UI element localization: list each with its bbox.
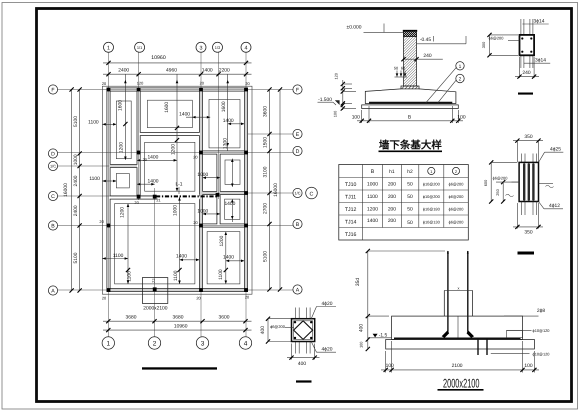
svg-text:B: B bbox=[371, 169, 375, 175]
svg-text:240: 240 bbox=[423, 53, 431, 59]
svg-text:1000: 1000 bbox=[197, 208, 208, 214]
svg-text:1100: 1100 bbox=[113, 253, 124, 259]
axis line E (horizontal) bbox=[248, 133, 293, 135]
svg-text:D: D bbox=[296, 149, 300, 155]
svg-text:16000: 16000 bbox=[63, 183, 69, 197]
svg-text:1/1: 1/1 bbox=[137, 45, 142, 50]
svg-text:ϕ6@200: ϕ6@200 bbox=[449, 206, 465, 211]
240 column section body bbox=[520, 35, 535, 55]
beam L-1 dashed line bbox=[156, 195, 217, 197]
svg-text:ϕ10@180: ϕ10@180 bbox=[423, 206, 441, 211]
svg-text:2100: 2100 bbox=[452, 363, 463, 369]
svg-text:1400: 1400 bbox=[224, 201, 235, 207]
svg-text:50: 50 bbox=[407, 207, 413, 213]
axis line 3 (vertical) bbox=[200, 53, 202, 338]
svg-text:3ϕ14: 3ϕ14 bbox=[534, 18, 545, 24]
svg-text:1/C: 1/C bbox=[50, 164, 56, 169]
column 3-A bbox=[199, 288, 203, 292]
svg-text:2000x2100: 2000x2100 bbox=[143, 306, 167, 312]
svg-text:200: 200 bbox=[388, 218, 396, 224]
room11 interior dim line bbox=[225, 232, 227, 284]
svg-text:10960: 10960 bbox=[151, 55, 166, 61]
svg-text:1500: 1500 bbox=[263, 137, 269, 148]
table header circle 1 bbox=[428, 167, 435, 174]
240 column wall lines above bbox=[520, 19, 522, 35]
svg-text:5100: 5100 bbox=[73, 252, 79, 263]
room10 interior dim line right bbox=[179, 197, 181, 284]
left dim 400 of column section bbox=[267, 319, 269, 342]
column 1/3-1/C bbox=[216, 193, 220, 197]
svg-text:2400: 2400 bbox=[73, 175, 79, 186]
bottom segment dim line bbox=[103, 320, 252, 322]
rebar dots 240 column bbox=[521, 37, 523, 39]
axis bubble C right bbox=[306, 187, 318, 199]
room 6 footing inner edge bbox=[225, 160, 240, 184]
room 10 footing inner edge bbox=[115, 204, 195, 284]
axis line C (horizontal) bbox=[58, 195, 161, 197]
svg-text:ϕ10@200: ϕ10@200 bbox=[423, 194, 441, 199]
right total dim line 16000 bbox=[279, 90, 281, 290]
svg-text:200: 200 bbox=[388, 194, 396, 200]
svg-text:1100: 1100 bbox=[367, 194, 378, 200]
svg-text:2000x2100: 2000x2100 bbox=[443, 376, 480, 390]
column 1-B bbox=[107, 224, 111, 228]
svg-text:TJ11: TJ11 bbox=[345, 195, 356, 201]
svg-text:x: x bbox=[458, 286, 460, 291]
top total dim line 10960 bbox=[103, 62, 252, 64]
svg-text:100: 100 bbox=[352, 114, 360, 120]
room 4 wall faces bbox=[140, 136, 199, 196]
axis line 1/D (horizontal) bbox=[58, 165, 138, 167]
svg-text:-1.5: -1.5 bbox=[379, 332, 388, 338]
column 3-D bbox=[199, 151, 203, 155]
axis bubble 2 bottom bbox=[148, 337, 160, 349]
svg-text:400: 400 bbox=[359, 324, 365, 332]
svg-text:3100: 3100 bbox=[263, 166, 269, 177]
svg-text:3600: 3600 bbox=[219, 314, 230, 320]
column 2-A pier center bbox=[153, 287, 157, 291]
400 column rebar diamond bbox=[294, 321, 313, 340]
svg-text:C: C bbox=[310, 191, 314, 197]
svg-text:3600: 3600 bbox=[263, 106, 269, 117]
dowel hooks bbox=[442, 331, 449, 338]
column 4-B bbox=[244, 224, 248, 228]
axis line 1/C (horizontal) bbox=[202, 192, 293, 194]
svg-text:5100: 5100 bbox=[73, 116, 79, 127]
column 4-A bbox=[244, 288, 248, 292]
svg-text:2200: 2200 bbox=[219, 68, 230, 74]
column 1/1-F bbox=[137, 88, 141, 92]
room10 interior dim line left bbox=[127, 204, 129, 284]
svg-text:21: 21 bbox=[156, 198, 160, 203]
svg-text:1100: 1100 bbox=[89, 176, 100, 182]
svg-text:B: B bbox=[296, 222, 300, 228]
room 3 wall faces bbox=[203, 91, 245, 151]
svg-text:400: 400 bbox=[260, 326, 266, 334]
svg-text:2400: 2400 bbox=[118, 68, 129, 74]
table horizontal lines bbox=[339, 177, 469, 179]
axis bubble E right bbox=[293, 129, 302, 138]
svg-text:2700: 2700 bbox=[263, 203, 269, 214]
svg-text:A: A bbox=[51, 289, 55, 295]
rooms 2/4 interior dim line bbox=[176, 74, 178, 191]
column 1-F bbox=[107, 88, 111, 92]
dim 400 of column section bbox=[291, 344, 293, 360]
svg-text:1100: 1100 bbox=[126, 271, 132, 282]
axis line B (horizontal) bbox=[58, 225, 294, 227]
svg-text:ϕ10@200: ϕ10@200 bbox=[423, 181, 441, 186]
svg-text:4ϕ20: 4ϕ20 bbox=[322, 347, 333, 353]
240 column wall lines below bbox=[520, 55, 522, 68]
axis bubble D right bbox=[293, 146, 302, 155]
column 1/1-C bbox=[137, 195, 141, 199]
svg-text:4ϕ12: 4ϕ12 bbox=[549, 203, 560, 209]
axis bubble B right bbox=[293, 219, 302, 228]
room 11 wall faces bbox=[203, 227, 245, 288]
svg-text:1: 1 bbox=[459, 64, 462, 70]
svg-text:1200: 1200 bbox=[171, 144, 177, 155]
room 2 footing inner edge bbox=[147, 100, 192, 128]
lap bars inside column bbox=[523, 164, 525, 199]
column 3-B bbox=[199, 224, 203, 228]
axis bubble 4 bottom bbox=[239, 337, 251, 349]
left segment dim line bbox=[79, 90, 81, 291]
axis bubble 1/3 top bbox=[213, 42, 223, 52]
svg-text:35d: 35d bbox=[355, 278, 361, 286]
room 9 footing inner edge bbox=[116, 174, 129, 188]
svg-text:1100: 1100 bbox=[88, 119, 99, 125]
axis bubble 4 top bbox=[241, 42, 251, 52]
svg-text:250: 250 bbox=[495, 188, 500, 195]
brick step at wall base bbox=[401, 86, 419, 89]
rebar spacing box in footing bbox=[507, 330, 523, 337]
svg-text:200: 200 bbox=[388, 182, 396, 188]
bottom total dim line 10960 bbox=[103, 329, 252, 331]
column 4-F bbox=[244, 88, 248, 92]
svg-text:1000: 1000 bbox=[367, 182, 378, 188]
room 4 footing inner edge bbox=[145, 142, 195, 191]
svg-text:1200: 1200 bbox=[119, 142, 125, 153]
pier dowel bars bbox=[447, 251, 449, 332]
svg-text:100: 100 bbox=[386, 363, 394, 369]
svg-text:1000: 1000 bbox=[173, 205, 179, 216]
svg-text:F: F bbox=[51, 88, 54, 94]
svg-text:2400: 2400 bbox=[73, 205, 79, 216]
svg-text:2: 2 bbox=[153, 340, 157, 347]
svg-text:B: B bbox=[51, 224, 55, 230]
svg-text:1: 1 bbox=[106, 340, 110, 347]
footing rebar band bbox=[369, 102, 452, 104]
room 8 wall faces bbox=[220, 195, 244, 224]
axis line 1 (vertical) bbox=[108, 53, 110, 338]
strip footing body bbox=[365, 89, 456, 104]
axis line 4 (vertical) bbox=[245, 53, 247, 338]
axis line A (horizontal) bbox=[58, 289, 294, 291]
svg-text:400: 400 bbox=[298, 361, 306, 367]
svg-text:1200: 1200 bbox=[367, 207, 378, 213]
svg-text:TJ14: TJ14 bbox=[345, 220, 357, 226]
pier ZJ outline bbox=[142, 278, 167, 304]
svg-text:300: 300 bbox=[481, 41, 486, 48]
pier column stub outline bbox=[443, 291, 445, 317]
svg-text:10960: 10960 bbox=[174, 324, 188, 330]
scale bar of 400 detail bbox=[296, 380, 312, 382]
column 4-1/C bbox=[244, 191, 248, 195]
svg-text:墙下条基大样: 墙下条基大样 bbox=[379, 139, 442, 152]
table header circle 2 bbox=[452, 167, 459, 174]
wall stubs below 400 column bbox=[295, 342, 297, 354]
axis bubble 1 top bbox=[104, 42, 114, 52]
column 4-D bbox=[244, 151, 248, 155]
svg-text:1100: 1100 bbox=[218, 269, 224, 280]
break mark left bbox=[506, 194, 514, 197]
svg-text:ϕ6@200: ϕ6@200 bbox=[449, 181, 465, 186]
axis bubble 1/1 top bbox=[135, 42, 145, 52]
svg-text:E: E bbox=[296, 132, 300, 138]
svg-text:100: 100 bbox=[359, 341, 364, 348]
svg-text:200: 200 bbox=[388, 207, 396, 213]
column 1/1-D bbox=[137, 151, 141, 155]
room 1 wall faces bbox=[110, 91, 137, 164]
svg-text:TJ12: TJ12 bbox=[345, 207, 357, 213]
scale bar of 240 detail bbox=[518, 93, 533, 95]
right stub line with break bbox=[539, 183, 554, 185]
column 1-A bbox=[107, 288, 111, 292]
svg-text:1400: 1400 bbox=[176, 254, 187, 260]
callout circle 1 bbox=[456, 62, 464, 70]
svg-text:ϕ10@130: ϕ10@130 bbox=[423, 220, 441, 225]
hatched wall section bbox=[404, 33, 417, 86]
room 11 footing inner edge bbox=[207, 232, 240, 284]
axis bubble F left bbox=[48, 85, 57, 94]
svg-text:ϕ6@200: ϕ6@200 bbox=[449, 220, 465, 225]
svg-text:D: D bbox=[51, 152, 55, 158]
svg-text:h2: h2 bbox=[407, 169, 413, 175]
room 6 wall faces bbox=[220, 154, 244, 191]
svg-text:1: 1 bbox=[430, 169, 432, 174]
svg-text:4: 4 bbox=[245, 46, 248, 52]
right segment dim line bbox=[269, 90, 271, 290]
axis line D (horizontal) bbox=[58, 152, 294, 154]
svg-text:C: C bbox=[51, 194, 55, 200]
axis line 2 (vertical) bbox=[154, 188, 156, 337]
axis bubble 3 bottom bbox=[196, 337, 208, 349]
svg-text:3680: 3680 bbox=[126, 314, 137, 320]
svg-text:-0.45: -0.45 bbox=[420, 37, 431, 43]
room 10 wall faces bbox=[110, 199, 199, 288]
pier axis line bbox=[457, 316, 459, 338]
400 column outer square bbox=[292, 319, 315, 342]
svg-text:1400: 1400 bbox=[223, 118, 234, 124]
footing bottom rebar band bbox=[394, 337, 521, 339]
footing outer edge of building bbox=[102, 86, 252, 294]
svg-text:±0.000: ±0.000 bbox=[347, 25, 362, 31]
svg-text:3680: 3680 bbox=[173, 314, 184, 320]
room 8 footing inner edge bbox=[225, 199, 240, 219]
axis bubble 1 bottom bbox=[102, 337, 114, 349]
svg-text:5100: 5100 bbox=[263, 251, 269, 262]
svg-text:2: 2 bbox=[459, 77, 462, 83]
callout circle 2 bbox=[456, 74, 464, 82]
svg-text:A: A bbox=[296, 288, 300, 294]
svg-text:16000: 16000 bbox=[273, 183, 279, 197]
svg-text:3: 3 bbox=[200, 46, 203, 52]
svg-text:4: 4 bbox=[244, 340, 248, 347]
axis bubble 1/D left bbox=[48, 161, 57, 170]
svg-text:h1: h1 bbox=[389, 169, 395, 175]
axis bubble 3 top bbox=[196, 42, 206, 52]
room 2 wall faces bbox=[140, 91, 199, 132]
svg-text:F: F bbox=[296, 88, 299, 94]
wall opening at axis C (erase) bbox=[158, 194, 200, 200]
footing table frame bbox=[339, 165, 469, 241]
pier footing body bbox=[392, 316, 523, 339]
svg-text:ZJ: ZJ bbox=[151, 278, 156, 282]
svg-text:100: 100 bbox=[333, 110, 338, 117]
svg-text:1400: 1400 bbox=[223, 254, 234, 260]
svg-text:600: 600 bbox=[483, 179, 488, 186]
table vertical lines bbox=[362, 165, 364, 241]
svg-text:4ϕ20: 4ϕ20 bbox=[322, 301, 333, 307]
svg-text:2: 2 bbox=[455, 169, 457, 174]
axis line F (horizontal) bbox=[58, 89, 294, 91]
svg-text:ϕ10@120: ϕ10@120 bbox=[533, 328, 551, 333]
svg-text:4960: 4960 bbox=[166, 68, 177, 74]
wall outer face of building bbox=[107, 88, 248, 292]
svg-text:TJ10: TJ10 bbox=[345, 182, 357, 188]
room3 interior dim line bbox=[227, 74, 229, 151]
room 9 wall faces bbox=[110, 168, 137, 196]
plan graphic scale bar bbox=[142, 367, 217, 369]
wall stubs above 400 column bbox=[295, 308, 297, 319]
svg-text:ϕ6@200: ϕ6@200 bbox=[449, 194, 465, 199]
svg-text:ϕ6@200: ϕ6@200 bbox=[489, 36, 505, 41]
wall stubs below column elevation bbox=[521, 202, 523, 216]
svg-text:3: 3 bbox=[201, 340, 205, 347]
svg-text:1400: 1400 bbox=[367, 218, 378, 224]
tie line on dowels bbox=[444, 290, 473, 292]
svg-text:1600: 1600 bbox=[221, 101, 227, 112]
svg-text:100: 100 bbox=[524, 363, 532, 369]
axis bubble F right bbox=[293, 85, 302, 94]
svg-text:120: 120 bbox=[137, 81, 144, 86]
svg-text:1200: 1200 bbox=[120, 207, 126, 218]
svg-text:ϕ10@120: ϕ10@120 bbox=[533, 352, 551, 357]
svg-text:B: B bbox=[408, 114, 411, 120]
svg-text:3ϕ14: 3ϕ14 bbox=[535, 58, 546, 64]
room 1 footing inner edge bbox=[116, 101, 131, 159]
pier bottom dim line bbox=[385, 351, 387, 373]
pier bedding layer bbox=[386, 340, 535, 350]
svg-text:4ϕ25: 4ϕ25 bbox=[550, 147, 561, 153]
svg-text:1/3: 1/3 bbox=[215, 45, 220, 50]
svg-text:ϕ6@200: ϕ6@200 bbox=[270, 324, 286, 329]
scale bar of 350 detail bbox=[518, 252, 535, 255]
axis bubble A right bbox=[293, 285, 302, 294]
svg-text:350: 350 bbox=[524, 230, 532, 236]
wall stubs above column elevation bbox=[521, 154, 523, 163]
svg-text:1200: 1200 bbox=[219, 235, 225, 246]
svg-text:50: 50 bbox=[407, 194, 413, 200]
ground cap cross hatch bbox=[404, 31, 417, 37]
svg-text:L-1: L-1 bbox=[175, 182, 182, 188]
svg-text:1000: 1000 bbox=[197, 172, 208, 178]
svg-text:1/C: 1/C bbox=[294, 191, 300, 196]
dim 350 bottom of column elevation bbox=[516, 203, 518, 229]
room 3 footing inner edge bbox=[209, 100, 240, 148]
axis bubble D left bbox=[48, 149, 57, 158]
room 7 wall faces bbox=[203, 195, 217, 224]
svg-text:350: 350 bbox=[524, 134, 532, 140]
axis bubble A left bbox=[48, 286, 57, 295]
column 2-C bbox=[153, 195, 157, 199]
room6 interior dim line bbox=[231, 159, 233, 187]
column 3-F bbox=[199, 88, 203, 92]
svg-text:1600: 1600 bbox=[164, 102, 170, 113]
bottom dim line of section bbox=[361, 110, 363, 123]
axis bubble 1/C right bbox=[293, 188, 302, 197]
svg-text:1: 1 bbox=[107, 46, 110, 52]
column elevation body bbox=[519, 162, 538, 201]
left total dim line 16000 bbox=[71, 90, 73, 291]
400 column corner rebar dots bbox=[294, 321, 296, 323]
axis line 1/3 (vertical) bbox=[218, 53, 220, 200]
svg-text:120: 120 bbox=[334, 72, 339, 79]
axis bubble C left bbox=[48, 191, 57, 200]
top segment dim line bbox=[103, 73, 252, 75]
room1 interior dim line bbox=[124, 74, 126, 160]
svg-text:1300: 1300 bbox=[222, 138, 228, 149]
svg-text:1600: 1600 bbox=[117, 100, 123, 111]
svg-text:240: 240 bbox=[522, 70, 530, 76]
400 column inner square bbox=[294, 321, 313, 340]
svg-text:1400: 1400 bbox=[202, 68, 213, 74]
svg-text:1100: 1100 bbox=[173, 270, 179, 281]
svg-text:50: 50 bbox=[407, 220, 413, 226]
svg-text:1000: 1000 bbox=[73, 154, 79, 165]
bedding dowel strips bbox=[477, 338, 479, 355]
bedding layer bbox=[362, 105, 459, 109]
svg-text:100: 100 bbox=[457, 114, 465, 120]
svg-text:1400: 1400 bbox=[147, 155, 158, 161]
axis line 1/1 (vertical) bbox=[138, 53, 140, 201]
room 5 wall faces bbox=[203, 154, 217, 191]
svg-text:2ϕ8: 2ϕ8 bbox=[537, 308, 545, 314]
axis bubble B left bbox=[48, 221, 57, 230]
svg-text:50: 50 bbox=[407, 182, 413, 188]
svg-text:ϕ6@200: ϕ6@200 bbox=[493, 176, 509, 181]
svg-text:1400: 1400 bbox=[179, 112, 190, 118]
room8 interior dim line bbox=[231, 199, 233, 222]
svg-text:TJ16: TJ16 bbox=[345, 232, 357, 238]
